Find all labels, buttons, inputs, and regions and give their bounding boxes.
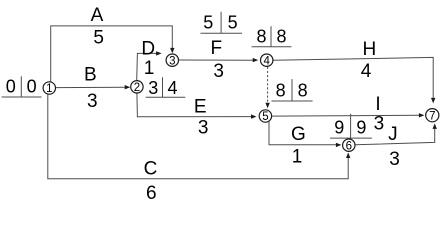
dummy activity (dashed node4 to node5) — [267, 67, 269, 103]
arrowhead I into node7 — [419, 113, 425, 117]
svg-text:F: F — [210, 38, 222, 59]
svg-text:3: 3 — [389, 149, 400, 170]
wire A path (node1 up, right, down to node3) — [51, 26, 173, 82]
svg-text:6: 6 — [346, 140, 352, 152]
wire F (node3 to node4) — [179, 59, 256, 61]
svg-text:3: 3 — [169, 55, 175, 67]
node 5 — [259, 110, 271, 123]
svg-text:9: 9 — [356, 118, 366, 138]
svg-text:3: 3 — [374, 114, 385, 135]
wire I (node5 to node7) — [272, 114, 422, 117]
arrowhead E into node5 — [251, 114, 257, 118]
node 2 — [131, 81, 143, 94]
svg-text:3: 3 — [213, 61, 224, 82]
arrowhead H into node7 — [431, 98, 435, 104]
wire D path (node2 up, right to node3) — [137, 53, 159, 80]
node 6 — [343, 139, 355, 152]
svg-text:8: 8 — [256, 26, 266, 46]
arrowhead G into node6 — [336, 143, 342, 147]
wire J path (node6 right, up to node7) — [355, 126, 435, 145]
svg-text:8: 8 — [276, 80, 286, 100]
svg-text:I: I — [375, 94, 380, 115]
arrowhead B into node2 — [125, 85, 131, 89]
svg-text:1: 1 — [144, 58, 155, 79]
arrowhead dummy into node5 — [265, 103, 269, 109]
svg-text:5: 5 — [262, 111, 268, 123]
node 1 times 0|0 — [2, 76, 42, 97]
arrowhead F into node4 — [253, 58, 259, 62]
arrowhead C into node6 — [346, 153, 350, 159]
svg-text:C: C — [144, 158, 158, 179]
svg-text:3: 3 — [87, 91, 98, 112]
svg-text:8: 8 — [276, 26, 286, 46]
svg-text:7: 7 — [429, 110, 435, 122]
svg-text:9: 9 — [334, 118, 344, 138]
svg-text:4: 4 — [263, 55, 270, 67]
svg-text:3: 3 — [198, 117, 209, 138]
node 2 times 3|4 — [146, 77, 186, 98]
wire B (node1 to node2) — [56, 86, 128, 88]
svg-text:1: 1 — [292, 147, 303, 168]
svg-text:A: A — [91, 5, 104, 26]
svg-text:8: 8 — [298, 80, 308, 100]
svg-text:D: D — [141, 39, 155, 60]
wire G path (node5 down, right to node6) — [269, 121, 339, 145]
svg-text:E: E — [194, 96, 207, 117]
svg-text:4: 4 — [167, 78, 177, 98]
svg-text:5: 5 — [203, 12, 213, 32]
svg-text:5: 5 — [93, 27, 104, 48]
arrowhead D into node3 — [156, 51, 162, 55]
svg-text:0: 0 — [6, 76, 16, 96]
node 7 — [426, 109, 439, 123]
node 4 — [261, 54, 273, 67]
svg-text:J: J — [388, 124, 398, 145]
node 1 — [43, 82, 55, 95]
svg-text:3: 3 — [148, 78, 158, 98]
node 5 times 8|8 — [272, 79, 313, 101]
node 3 times 5|5 — [201, 12, 243, 33]
node 4 times 8|8 — [252, 26, 292, 47]
svg-text:H: H — [363, 39, 377, 60]
svg-text:G: G — [291, 124, 306, 145]
arrowhead J into node7 — [433, 123, 437, 128]
svg-text:5: 5 — [228, 12, 238, 32]
wire H path (node4 right, down to node7) — [273, 57, 433, 98]
svg-text:6: 6 — [146, 183, 157, 204]
wire C path (node1 down, right, up to node6) — [48, 94, 348, 179]
svg-text:0: 0 — [27, 76, 37, 96]
svg-text:1: 1 — [46, 83, 52, 95]
svg-text:4: 4 — [361, 61, 372, 82]
wire E path (node2 down, right to node5) — [137, 93, 254, 117]
svg-text:2: 2 — [134, 82, 140, 94]
svg-text:B: B — [84, 65, 97, 86]
node 6 times 9|9 — [330, 114, 372, 140]
arrowhead A into node3 — [170, 48, 174, 54]
node 3 — [166, 54, 178, 67]
